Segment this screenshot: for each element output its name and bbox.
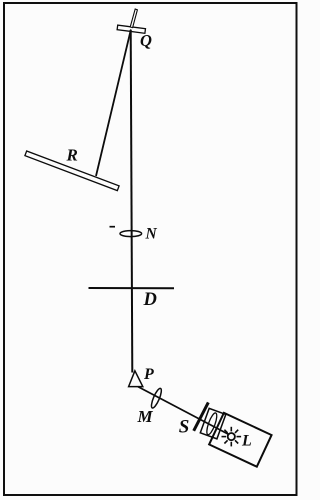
wire: ray from mirror Q to scale R bbox=[96, 30, 131, 177]
condenser housing (small tilted box) bbox=[200, 408, 226, 438]
condenser lens inside housing bbox=[205, 412, 219, 436]
wire: ray from prism P to lamp L bbox=[138, 387, 231, 436]
rod above mirror Q bbox=[130, 9, 137, 28]
svg-text:R: R bbox=[66, 146, 78, 165]
prism P (triangle) bbox=[129, 371, 143, 387]
lamp box L bbox=[209, 413, 271, 467]
mirror Q (tilted bar) bbox=[117, 25, 145, 33]
lamp flame symbol (sun) bbox=[222, 427, 242, 447]
diaphragm D (horizontal line) bbox=[89, 287, 175, 289]
lens M (tilted ellipse) bbox=[150, 387, 164, 409]
svg-text:N: N bbox=[145, 226, 158, 243]
lens N (ellipse) bbox=[120, 231, 142, 237]
svg-text:S: S bbox=[179, 417, 190, 438]
svg-text:D: D bbox=[143, 290, 157, 310]
slit S (thick stroke perpendicular to ray) bbox=[194, 402, 209, 430]
svg-text:M: M bbox=[137, 407, 154, 426]
svg-text:L: L bbox=[241, 433, 252, 450]
wire: vertical beam from Q to P bbox=[131, 30, 133, 373]
svg-text:Q: Q bbox=[140, 31, 152, 50]
tick left of lens N bbox=[110, 226, 116, 228]
scale bar R bbox=[25, 151, 119, 191]
svg-text:P: P bbox=[143, 366, 154, 383]
